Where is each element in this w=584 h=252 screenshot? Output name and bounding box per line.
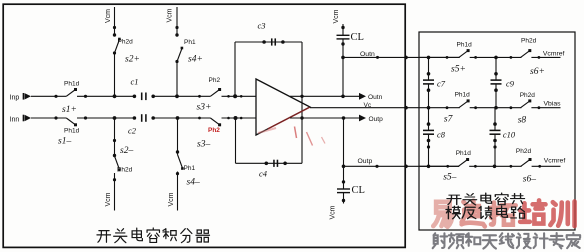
wire: c1 to switch s3+ (153, 95, 210, 97)
svg-text:Ph2d: Ph2d (520, 92, 536, 99)
switch s8 with clock Ph2d (510, 106, 513, 109)
capacitor CL (bottom load) (337, 188, 350, 190)
wire: s4- down to Vcm (177, 172, 179, 211)
outer boundary box of switched-capacitor integrator (3, 4, 405, 247)
switch s2- with clock Ph2d (115, 156, 120, 171)
svg-text:Outp: Outp (369, 116, 384, 123)
svg-text:Vcmref: Vcmref (544, 158, 566, 165)
capacitor c8 (428, 108, 430, 131)
svg-text:Vcm: Vcm (166, 8, 173, 22)
svg-text:Inn: Inn (10, 116, 20, 123)
node: top output / CL branch (341, 95, 345, 99)
svg-text:Inp: Inp (10, 94, 20, 101)
svg-text:Ph2: Ph2 (208, 127, 220, 134)
wire: vertical from Outn line down to top output (342, 57, 344, 96)
wire: s4+ down to row1 (176, 62, 178, 97)
svg-text:Vcm: Vcm (330, 205, 337, 219)
wire: Vcm down to switch s2+ (114, 7, 116, 36)
common-mode feedback sub-circuit boundary box (419, 32, 575, 230)
wire: feedback top-left vertical (row1 to c3) (234, 42, 236, 96)
wire: s1+ to capacitor c1 (77, 95, 135, 97)
wire: CL down to Outn line (342, 39, 344, 58)
svg-text:Outn: Outn (368, 94, 383, 101)
switch s7 with clock Ph1d (460, 106, 470, 109)
node: row2 / feedback c4 branch (227, 117, 230, 120)
svg-text:Vcm: Vcm (105, 192, 112, 206)
node: row B / c7-c8 (427, 106, 431, 110)
wire: row2 down to switch s2- (114, 118, 116, 156)
wire: s2- down to Vcm (114, 173, 116, 211)
node: row A / c9 (494, 56, 498, 60)
wire: row B inside CMFB box (459, 107, 561, 109)
svg-text:s2+: s2+ (125, 55, 140, 65)
svg-text:s4–: s4– (187, 178, 200, 188)
wire: CL down to Vcm (bottom) (343, 193, 345, 204)
capacitor c2 (series) (141, 114, 143, 122)
wire: row2 down to switch s4- (177, 118, 179, 155)
wire: op-amp output bottom (Outp) (290, 117, 359, 119)
wire: Vc from op-amp tip to feedback circuit row B (310, 107, 459, 109)
capacitor CL (top load) (337, 34, 350, 36)
op-amp U1 (fully differential) (256, 79, 310, 135)
title text: 开关电容积分器 (switched-capacitor integrator) (97, 231, 111, 243)
capacitor c4 (feedback) (273, 160, 275, 167)
svg-text:c4: c4 (259, 169, 268, 179)
capacitor c10 (494, 108, 496, 131)
wire: row C inside CMFB box (419, 165, 561, 167)
switch s1+ with clock Ph1d (67, 95, 77, 98)
svg-text:c7: c7 (437, 79, 446, 89)
switch s5+ with clock Ph1d (460, 56, 470, 59)
node: row A / c7 (427, 56, 431, 60)
node: row1 / feedback c3 branch (227, 95, 230, 98)
svg-text:c2: c2 (128, 126, 137, 136)
svg-text:s5–: s5– (443, 172, 456, 182)
wire: feedback bottom-left vertical (row2 to c4) (235, 118, 237, 163)
switch s3+ with clock Ph2 (211, 95, 221, 98)
switch s4+ with clock Ph1 (177, 48, 182, 62)
svg-text:s2–: s2– (120, 146, 133, 156)
wire: s3+ to op-amp inverting input (222, 95, 257, 97)
svg-text:CL: CL (352, 185, 365, 196)
capacitor c3 (feedback) (271, 38, 273, 45)
svg-text:s5+: s5+ (451, 65, 466, 75)
svg-text:Ph1d: Ph1d (64, 81, 80, 88)
terminal arrow Outp (359, 115, 366, 122)
svg-text:Outn: Outn (360, 51, 375, 58)
svg-text:s8: s8 (518, 116, 527, 126)
node: row2 / s2- branch junction (113, 116, 117, 120)
svg-text:s6+: s6+ (530, 67, 545, 77)
wire: Inn to switch s1- (31, 117, 66, 119)
node: bottom output / CL branch (342, 116, 346, 120)
wire: Vcm down to switch s4+ (176, 7, 178, 36)
wire: Inp to switch s1+ (31, 95, 66, 97)
svg-text:c9: c9 (506, 79, 515, 89)
svg-text:Vbias: Vbias (544, 101, 562, 108)
svg-text:c3: c3 (258, 21, 266, 31)
switch s5- with clock Ph1d (459, 165, 469, 168)
svg-text:s6–: s6– (523, 175, 536, 185)
svg-text:s1+: s1+ (62, 105, 77, 115)
wire: Outp line to feedback circuit row C (344, 165, 460, 167)
wire: row A inside CMFB box (419, 56, 561, 58)
capacitor c1 (series) (141, 93, 143, 101)
wire: feedback top horizontal (235, 41, 302, 43)
red watermark stroke over triangle bottom edge (268, 107, 310, 129)
wire: op-amp output top (Outn) (290, 95, 359, 97)
svg-text:Ph2: Ph2 (209, 77, 221, 84)
svg-text:Ph1: Ph1 (184, 39, 196, 46)
node: row1 / s4+ branch junction (175, 94, 179, 98)
capacitor c9 (495, 57, 497, 80)
switch s6+ with clock Ph2d (510, 56, 513, 59)
node: row C / c8 (427, 165, 431, 169)
watermark: 易迪拓培训 logo text (433, 202, 452, 227)
svg-text:s3+: s3+ (197, 103, 212, 113)
capacitor c7 (428, 57, 430, 80)
label text: 模反馈电路 (CMFB circuit, line 2) (446, 206, 460, 219)
wire: s1- to capacitor c2 (77, 117, 135, 119)
node: row1 / s2+ branch junction (113, 94, 117, 98)
wire: s3- to op-amp non-inverting input (222, 117, 257, 119)
svg-text:Vcmref: Vcmref (543, 51, 565, 58)
wire: feedback right vertical (301, 42, 303, 163)
svg-text:Ph1d: Ph1d (64, 128, 80, 135)
svg-text:Ph1d: Ph1d (456, 150, 472, 157)
svg-text:Ph2d: Ph2d (516, 148, 532, 155)
node: row C / c10 (493, 165, 497, 169)
switch s4- with clock Ph1 (178, 155, 183, 170)
wire: Outp line down to capacitor CL (bottom) (343, 166, 345, 189)
wire: Outn line to feedback circuit row A (343, 56, 459, 58)
switch s3- with clock Ph2 (red label) (211, 117, 221, 120)
svg-text:Ph2d: Ph2d (117, 167, 133, 174)
svg-text:c1: c1 (131, 77, 139, 87)
wire: feedback bottom horizontal (236, 162, 303, 164)
watermark: 射频和天线设计专家 (RF and antenna design experts) (433, 233, 447, 248)
svg-text:Ph2d: Ph2d (118, 38, 134, 45)
svg-text:s3–: s3– (197, 139, 210, 149)
wire: vertical from bottom output down to Outp line (343, 118, 345, 166)
svg-text:c10: c10 (503, 129, 516, 139)
wire: Vcm down to capacitor CL (top) (342, 24, 344, 35)
wire: c2 to switch s3- (153, 117, 210, 119)
svg-text:CL: CL (351, 32, 364, 43)
svg-text:Ph1: Ph1 (184, 165, 196, 172)
switch s2+ with clock Ph2d (115, 39, 120, 54)
svg-text:Vcm: Vcm (105, 9, 112, 23)
wire: s2+ down to row1 (114, 53, 116, 96)
svg-text:Outp: Outp (358, 158, 373, 165)
node: row B / c9-c10 (494, 106, 498, 110)
svg-text:Ph1d: Ph1d (455, 91, 471, 98)
switch s6- with clock Ph2d (510, 165, 513, 168)
svg-text:Vcm: Vcm (168, 192, 175, 206)
switch s1- with clock Ph1d (67, 117, 77, 120)
svg-text:s7: s7 (444, 114, 454, 124)
node: row2 / s4- branch junction (176, 116, 180, 120)
svg-text:s1–: s1– (58, 137, 71, 147)
svg-text:s4+: s4+ (188, 55, 203, 65)
svg-text:c8: c8 (437, 129, 446, 139)
svg-text:Vcm: Vcm (333, 9, 340, 23)
label text: 开关电容共 (CMFB circuit, line 1) (447, 195, 461, 204)
terminal arrow Outn (359, 93, 366, 100)
svg-text:Ph2d: Ph2d (521, 38, 537, 45)
svg-text:Ph1d: Ph1d (457, 42, 473, 49)
